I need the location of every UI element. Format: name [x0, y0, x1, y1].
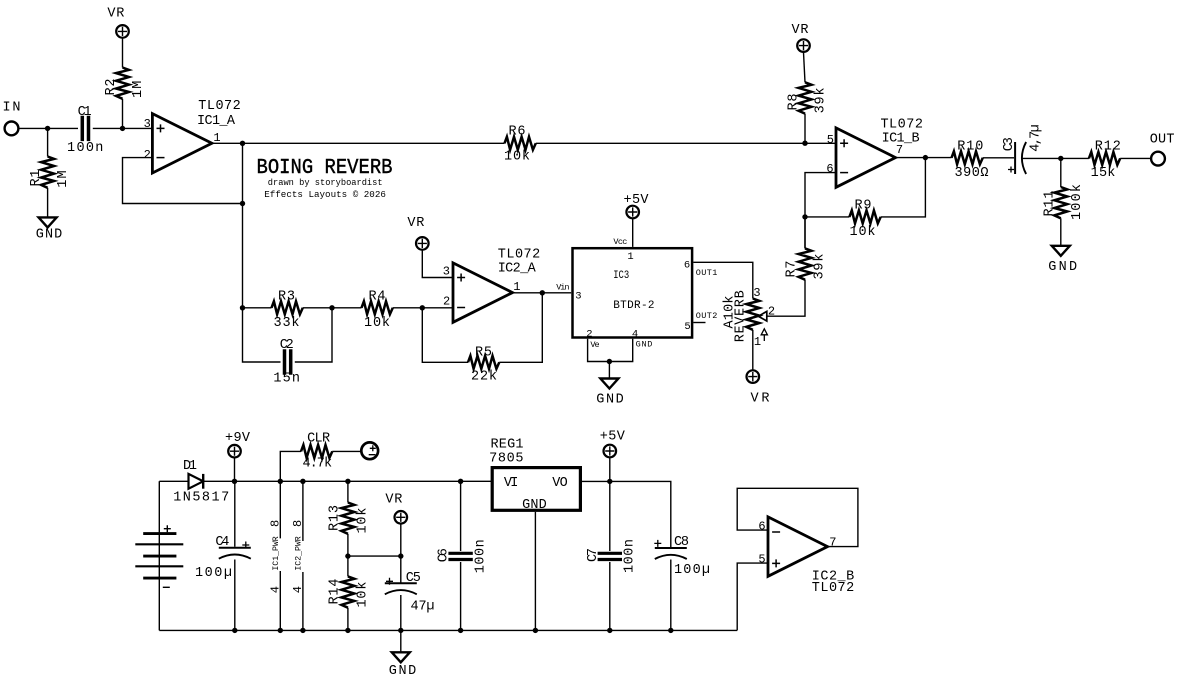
svg-text:OUT: OUT	[1150, 132, 1175, 147]
svg-text:100n: 100n	[474, 539, 489, 573]
wire IC1_A output	[212, 142, 505, 144]
svg-text:TL072: TL072	[812, 581, 855, 596]
svg-text:6: 6	[684, 260, 690, 272]
svg-text:IN: IN	[3, 101, 21, 116]
svg-text:IC1_A: IC1_A	[197, 114, 236, 129]
svg-text:22k: 22k	[471, 370, 497, 385]
bottom rail	[159, 629, 737, 631]
resistor R4	[362, 301, 393, 314]
resistor R9	[849, 210, 880, 223]
wire R4 to IC2_A pin2	[393, 307, 453, 309]
svg-text:OUT2: OUT2	[696, 311, 718, 321]
wire C1 to IC1_A pin3	[93, 127, 153, 129]
wire +5V to Vcc	[632, 219, 634, 247]
svg-text:100n: 100n	[67, 141, 103, 156]
resistor R6	[505, 137, 536, 150]
svg-text:R8: R8	[787, 94, 802, 111]
svg-text:R10: R10	[957, 139, 983, 154]
power +5V (IC3)	[626, 206, 639, 219]
wire R13 to mid	[347, 534, 349, 577]
svg-text:1M: 1M	[56, 170, 71, 187]
svg-text:100n: 100n	[623, 539, 638, 573]
power +9V	[228, 445, 241, 458]
junction C8 bottom	[668, 628, 673, 633]
svg-text:390Ω: 390Ω	[955, 166, 989, 181]
svg-text:3: 3	[575, 291, 581, 303]
junction IC2_PWR top	[300, 479, 305, 484]
svg-text:1: 1	[513, 280, 520, 294]
svg-text:100µ: 100µ	[674, 563, 710, 578]
capacitor C1	[82, 116, 88, 141]
resistor CLR 4.7k	[301, 445, 332, 458]
wire R1 to ground	[47, 188, 49, 218]
pot orientation arrow with 4	[761, 329, 767, 341]
wire VR to C5	[400, 524, 402, 630]
svg-text:+5V: +5V	[624, 193, 650, 208]
junction at R2 bottom	[120, 126, 125, 131]
svg-text:D1: D1	[183, 459, 197, 474]
wire VO to +5V node	[582, 481, 671, 547]
svg-text:10k: 10k	[504, 150, 530, 165]
resistor R5	[468, 356, 499, 369]
svg-text:R6: R6	[509, 125, 526, 140]
wire +5V down / C7	[609, 458, 611, 631]
svg-text:3: 3	[753, 286, 760, 300]
junction C6 top	[458, 479, 463, 484]
resistor R14	[341, 576, 354, 607]
junction at R1 top	[45, 126, 50, 131]
junction +5V	[607, 479, 612, 484]
wire CLR to LED	[332, 450, 361, 452]
svg-text:R1: R1	[29, 170, 44, 187]
svg-text:R14: R14	[328, 579, 343, 605]
svg-text:R12: R12	[1095, 140, 1121, 155]
C2 loop wires	[243, 308, 333, 362]
wire output down	[242, 143, 244, 307]
svg-text:C6: C6	[436, 548, 451, 562]
op-amp U2 IC2_B	[768, 517, 828, 576]
wire +9V down	[234, 458, 236, 481]
svg-text:Vin: Vin	[556, 282, 569, 292]
junction +9V	[232, 479, 237, 484]
ground (IC3)	[600, 379, 618, 389]
svg-text:6: 6	[758, 520, 765, 534]
junction C4 bottom	[232, 628, 237, 633]
wire C8 to rail	[670, 560, 672, 631]
wire IN to C1	[18, 127, 78, 129]
wire R6 to IC1_B pin5	[536, 142, 836, 144]
resistor R1	[47, 128, 49, 156]
wire IC2_A output to IC3	[513, 292, 572, 294]
power VR (pot)	[747, 370, 760, 383]
junction R9 left	[802, 214, 807, 219]
wire C3 to junction	[1022, 157, 1089, 159]
svg-text:R2: R2	[104, 79, 119, 96]
wire VR to pin3	[422, 250, 453, 277]
ground (R11)	[1052, 246, 1070, 256]
ground (R1)	[39, 217, 57, 227]
svg-text:C8: C8	[674, 535, 689, 550]
junction R3 left	[240, 305, 245, 310]
svg-text:TL072: TL072	[498, 248, 541, 263]
capacitor C7	[598, 553, 622, 559]
svg-text:IC1_PWR: IC1_PWR	[271, 536, 281, 570]
R9 right wire up to output	[881, 158, 926, 217]
svg-text:C4: C4	[215, 535, 229, 550]
svg-text:Vcc: Vcc	[613, 237, 627, 247]
wire VR to R8	[804, 52, 806, 82]
wire R14 to rail	[347, 608, 349, 631]
junction C6 bottom	[458, 628, 463, 633]
capacitor C6	[460, 481, 462, 630]
LED indicator circle	[361, 442, 378, 459]
wire R12 to OUT	[1120, 157, 1151, 159]
junction CLR/IC1PWR	[278, 479, 283, 484]
svg-text:GND: GND	[1048, 260, 1077, 275]
svg-text:R13: R13	[328, 505, 343, 531]
svg-text:Ve: Ve	[590, 340, 599, 350]
junction R14 bottom	[345, 628, 350, 633]
junction C7 bottom	[607, 628, 612, 633]
resistor R7	[799, 248, 812, 279]
svg-text:33k: 33k	[274, 316, 300, 331]
svg-text:6: 6	[826, 162, 833, 176]
svg-text:BTDR-2: BTDR-2	[613, 300, 654, 312]
junction C5 bottom	[398, 628, 403, 633]
wire IC1_B output	[896, 157, 952, 159]
pin 8 stub IC2_PWR	[302, 481, 304, 630]
resistor R11	[1060, 158, 1062, 187]
svg-text:R11: R11	[1042, 191, 1057, 217]
wire VR to R2	[122, 38, 124, 67]
junction REG GND	[533, 628, 538, 633]
capacitor C2	[285, 349, 291, 374]
svg-text:R4: R4	[369, 290, 386, 305]
svg-text:8: 8	[268, 520, 282, 527]
svg-text:10k: 10k	[850, 225, 876, 240]
node IN terminal	[5, 121, 19, 135]
wire C4	[234, 481, 236, 630]
wire to R9	[805, 216, 849, 218]
svg-text:+5V: +5V	[600, 430, 626, 445]
resistor R13	[347, 481, 349, 502]
svg-text:4: 4	[268, 586, 282, 593]
power VR (top left)	[116, 25, 129, 38]
wiper wire to R7	[767, 280, 805, 317]
junction R13 top	[345, 479, 350, 484]
svg-text:2: 2	[443, 295, 450, 309]
wires Ve/GND pins	[588, 339, 633, 362]
wire mid to VR node	[348, 555, 401, 557]
svg-text:1: 1	[754, 335, 761, 349]
junction output IC1_B	[923, 155, 928, 160]
svg-text:IC2_PWR: IC2_PWR	[293, 536, 303, 570]
svg-text:5: 5	[827, 133, 834, 147]
capacitor C8 (polarized)	[655, 548, 687, 559]
svg-text:100k: 100k	[1070, 184, 1085, 220]
resistor R10	[952, 151, 983, 164]
svg-text:CLR: CLR	[307, 432, 330, 447]
node OUT terminal	[1151, 152, 1165, 166]
pot wiper arrow	[758, 311, 767, 321]
battery BT1	[158, 481, 160, 630]
wire to R3	[243, 307, 272, 309]
op-amp U1 IC1_B	[836, 128, 896, 187]
wire CLR left	[280, 451, 301, 481]
op-amp U1 IC1_A	[152, 114, 212, 173]
junction VR/C5	[398, 553, 403, 558]
junction output IC2_A	[540, 290, 545, 295]
capacitor C5 (polarized)	[385, 583, 417, 594]
wire R2 to junction	[122, 99, 124, 129]
svg-text:drawn by storyboardist: drawn by storyboardist	[268, 177, 383, 188]
wire OUT2 stub	[693, 322, 705, 324]
svg-text:IC3: IC3	[613, 270, 629, 282]
svg-text:7: 7	[896, 143, 903, 157]
wire R3 to junction	[303, 307, 362, 309]
svg-text:GND: GND	[389, 664, 417, 677]
resistor R12	[1089, 152, 1120, 165]
svg-text:+9V: +9V	[225, 431, 251, 446]
wire REG GND to rail	[534, 512, 536, 631]
svg-text:VR: VR	[385, 493, 402, 508]
svg-text:5: 5	[684, 321, 690, 333]
svg-text:10k: 10k	[356, 582, 371, 608]
junction R13/R14	[345, 553, 350, 558]
svg-text:4,7µ: 4,7µ	[1029, 124, 1044, 151]
svg-text:2: 2	[144, 148, 151, 162]
svg-text:TL072: TL072	[880, 118, 923, 133]
junction IC3 ground	[607, 359, 612, 364]
resistor R2	[116, 68, 129, 99]
svg-text:VR: VR	[107, 6, 124, 21]
svg-text:3: 3	[144, 117, 151, 131]
svg-text:15n: 15n	[273, 371, 300, 386]
junction feedback	[240, 201, 245, 206]
svg-text:4.7k: 4.7k	[303, 457, 333, 472]
svg-text:7805: 7805	[489, 452, 523, 467]
voltage regulator REG1 7805	[492, 468, 580, 511]
feedback loop IC2_B	[737, 488, 858, 546]
power +5V (REG1)	[604, 445, 617, 458]
svg-text:5: 5	[758, 553, 765, 567]
power VR (C5)	[395, 511, 408, 524]
capacitor C3 (polarized)	[1015, 142, 1026, 174]
svg-text:R3: R3	[278, 290, 295, 305]
wire R8 to pin5 net	[804, 114, 806, 144]
junction R4/R5	[420, 305, 425, 310]
junction pin5	[802, 141, 807, 146]
svg-text:GND: GND	[636, 340, 653, 350]
pin 8 stub IC1_PWR	[279, 481, 281, 630]
wire R10 to C3	[983, 157, 1014, 159]
svg-text:REG1: REG1	[491, 438, 524, 453]
wire rail up to IC2_B pin5	[737, 563, 768, 630]
resistor R8	[799, 82, 812, 113]
svg-text:39k: 39k	[813, 254, 828, 280]
svg-text:3: 3	[443, 265, 450, 279]
svg-text:VO: VO	[552, 476, 567, 491]
svg-text:4: 4	[632, 328, 638, 340]
svg-text:R5: R5	[475, 346, 492, 361]
svg-text:4: 4	[291, 586, 305, 593]
svg-text:C1: C1	[78, 105, 92, 120]
svg-text:OUT1: OUT1	[696, 268, 718, 278]
svg-text:TL072: TL072	[198, 99, 241, 114]
svg-text:15k: 15k	[1091, 166, 1116, 181]
op-amp U2 IC2_A	[453, 263, 513, 322]
junction output IC1_A	[240, 141, 245, 146]
feedback wire pin6 to R9	[805, 173, 836, 249]
wire to ground	[608, 362, 610, 379]
battery minus	[163, 586, 170, 588]
svg-text:IC2_A: IC2_A	[498, 262, 537, 277]
svg-text:10k: 10k	[364, 316, 390, 331]
feedback wire pin2	[123, 158, 243, 204]
wire OUT1 to pot	[693, 262, 753, 298]
svg-text:8: 8	[291, 520, 305, 527]
svg-text:10k: 10k	[356, 508, 371, 534]
ground (bottom rail)	[400, 630, 402, 652]
junction IC2_PWR bottom	[300, 628, 305, 633]
battery plus	[164, 525, 171, 532]
potentiometer RV1 A10k REVERB body	[746, 299, 759, 330]
capacitor C4 (polarized)	[219, 548, 251, 559]
IC3 box BTDR-2	[573, 248, 693, 337]
svg-text:47µ: 47µ	[411, 600, 435, 615]
svg-text:C2: C2	[280, 338, 294, 353]
R5 feedback wires	[422, 293, 542, 363]
svg-text:GND: GND	[36, 228, 62, 243]
svg-text:39k: 39k	[814, 87, 829, 113]
svg-text:C3: C3	[1002, 137, 1017, 151]
wire R7 top to junction	[804, 217, 806, 249]
svg-text:1: 1	[627, 251, 633, 263]
svg-text:GND: GND	[522, 498, 547, 513]
wire R11 to ground	[1060, 218, 1062, 246]
svg-text:VR: VR	[792, 23, 809, 38]
power VR (IC2_A)	[416, 237, 429, 250]
pot bottom wire to VR	[752, 330, 754, 370]
svg-text:GND: GND	[596, 392, 624, 407]
junction IC1_PWR bottom	[278, 628, 283, 633]
junction R11 top	[1058, 156, 1063, 161]
svg-text:VI: VI	[504, 476, 519, 491]
svg-text:2: 2	[586, 328, 592, 340]
power VR (R8)	[797, 39, 810, 52]
resistor R3	[272, 301, 303, 314]
svg-text:C5: C5	[406, 571, 421, 586]
svg-text:100µ: 100µ	[195, 566, 232, 581]
diode D1 1N5817	[189, 474, 204, 489]
wire D1 to rail	[203, 480, 492, 482]
svg-text:1M: 1M	[131, 81, 146, 98]
wire battery top to D1	[159, 480, 188, 482]
svg-text:R7: R7	[785, 261, 800, 278]
junction R3/R4/C2	[329, 305, 334, 310]
svg-text:REVERB: REVERB	[733, 290, 748, 342]
svg-text:VR: VR	[407, 216, 424, 231]
svg-text:Effects Layouts © 2026: Effects Layouts © 2026	[264, 189, 386, 200]
svg-text:C7: C7	[586, 548, 601, 562]
svg-text:R9: R9	[855, 199, 872, 214]
